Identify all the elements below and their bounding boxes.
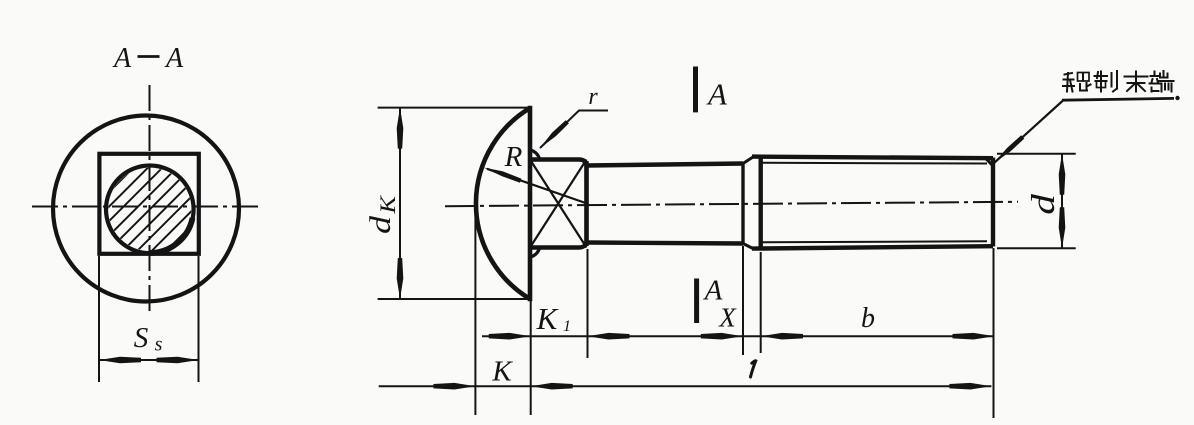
- svg-text:1: 1: [563, 318, 571, 335]
- svg-text:d: d: [1026, 194, 1062, 215]
- svg-text:A: A: [706, 77, 728, 112]
- svg-text:s: s: [155, 334, 163, 356]
- svg-text:S: S: [134, 322, 149, 354]
- svg-text:A: A: [164, 43, 184, 74]
- svg-text:R: R: [504, 141, 523, 173]
- svg-text:K: K: [536, 301, 560, 336]
- svg-text:r: r: [588, 84, 598, 110]
- svg-text:X: X: [718, 303, 737, 333]
- svg-text:b: b: [861, 303, 875, 334]
- svg-text:K: K: [491, 356, 513, 388]
- svg-text:A: A: [112, 43, 132, 74]
